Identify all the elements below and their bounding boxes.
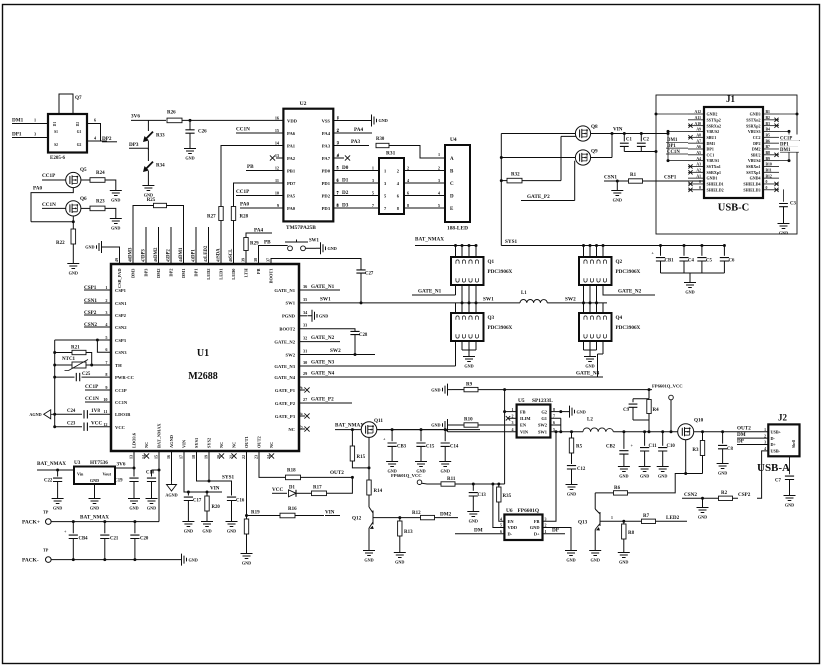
svg-text:2: 2 bbox=[764, 434, 766, 438]
svg-text:GND: GND bbox=[242, 561, 251, 566]
ground below C18 bbox=[146, 494, 158, 504]
svg-text:PWR-CC: PWR-CC bbox=[115, 375, 134, 380]
svg-text:USB-C: USB-C bbox=[718, 203, 750, 214]
svg-text:AGND: AGND bbox=[165, 493, 177, 498]
svg-text:R3: R3 bbox=[692, 448, 699, 453]
svg-text:Vout: Vout bbox=[103, 472, 112, 477]
svg-text:2: 2 bbox=[337, 128, 339, 133]
mosfet pack Q3 PDC3906X bbox=[451, 313, 484, 341]
svg-text:PB1: PB1 bbox=[287, 168, 296, 173]
ground below C22 bbox=[52, 494, 64, 504]
svg-text:GATE_N2: GATE_N2 bbox=[274, 339, 295, 344]
svg-text:BAT_NMAX: BAT_NMAX bbox=[37, 461, 66, 467]
svg-text:D1: D1 bbox=[289, 485, 295, 490]
svg-text:CSN2: CSN2 bbox=[115, 325, 127, 330]
svg-text:C1: C1 bbox=[626, 137, 632, 142]
svg-text:R28: R28 bbox=[240, 215, 249, 220]
svg-text:PD3: PD3 bbox=[322, 206, 331, 211]
svg-text:GND: GND bbox=[379, 118, 388, 123]
ground below C13 bbox=[467, 507, 479, 517]
svg-text:GND: GND bbox=[441, 469, 450, 474]
svg-text:Q3: Q3 bbox=[488, 315, 495, 321]
svg-text:SCL: SCL bbox=[229, 249, 234, 258]
wire Q2 gate net GATE_N2 bbox=[603, 285, 655, 295]
svg-text:GATE_P2: GATE_P2 bbox=[527, 194, 550, 200]
svg-text:GATE_N2: GATE_N2 bbox=[618, 288, 642, 294]
svg-text:VIN: VIN bbox=[325, 510, 335, 516]
svg-text:BOOT1: BOOT1 bbox=[269, 269, 274, 284]
svg-text:GND: GND bbox=[613, 198, 622, 203]
wire net DP1 at U1 top bbox=[195, 227, 197, 264]
svg-text:GND: GND bbox=[90, 506, 99, 511]
analog ground AGND below pin16 bbox=[167, 481, 177, 491]
svg-text:GND3: GND3 bbox=[750, 112, 761, 117]
wire U1 pin17 VIN rail bbox=[184, 451, 222, 492]
node NC U1 pin25 bbox=[299, 428, 305, 430]
svg-text:DP3: DP3 bbox=[142, 249, 147, 258]
svg-text:1: 1 bbox=[372, 165, 374, 170]
node NC U1 pin20 bbox=[219, 453, 224, 458]
svg-text:8: 8 bbox=[105, 372, 107, 377]
capacitor C26 bbox=[189, 120, 191, 129]
svg-text:D0: D0 bbox=[342, 165, 349, 171]
svg-text:U6: U6 bbox=[506, 508, 513, 514]
svg-text:BAT_NMAX: BAT_NMAX bbox=[157, 423, 162, 448]
resistor R24 bbox=[81, 179, 90, 181]
node DM1 at J1 right bbox=[780, 146, 801, 152]
svg-text:DP1: DP1 bbox=[707, 147, 714, 152]
svg-text:7: 7 bbox=[337, 190, 339, 195]
svg-text:GND2: GND2 bbox=[707, 112, 718, 117]
wire Q1 outputs to SW1 node bbox=[461, 285, 463, 303]
svg-text:D-: D- bbox=[508, 531, 513, 536]
svg-text:DP2: DP2 bbox=[169, 269, 174, 277]
svg-text:GATE_N4: GATE_N4 bbox=[274, 375, 295, 380]
svg-text:VDD: VDD bbox=[508, 525, 518, 530]
svg-text:SW1: SW1 bbox=[320, 297, 331, 303]
capacitor C2 bbox=[640, 132, 643, 135]
svg-text:DM1: DM1 bbox=[707, 141, 716, 146]
capacitor C19 bbox=[133, 467, 136, 470]
svg-text:C23: C23 bbox=[67, 422, 76, 427]
svg-text:R7: R7 bbox=[643, 514, 650, 519]
svg-text:GND: GND bbox=[85, 245, 94, 250]
ground below U3 bbox=[89, 494, 101, 504]
wire U1 pin5 CSP3 bbox=[55, 339, 111, 341]
svg-text:2: 2 bbox=[438, 165, 440, 170]
svg-text:SW1: SW1 bbox=[538, 429, 547, 434]
svg-text:R23: R23 bbox=[96, 200, 105, 205]
svg-text:BOOT2: BOOT2 bbox=[279, 327, 295, 332]
svg-text:PA6: PA6 bbox=[287, 131, 296, 136]
svg-text:DM2: DM2 bbox=[752, 147, 761, 152]
svg-text:CB3: CB3 bbox=[397, 445, 407, 450]
svg-text:3: 3 bbox=[764, 441, 766, 445]
svg-text:J1: J1 bbox=[726, 94, 736, 104]
svg-text:C26: C26 bbox=[198, 130, 207, 135]
svg-text:R13: R13 bbox=[404, 530, 413, 535]
svg-text:CSP2: CSP2 bbox=[738, 492, 751, 498]
svg-text:GATE_N4: GATE_N4 bbox=[576, 371, 600, 377]
svg-text:6: 6 bbox=[500, 529, 502, 534]
svg-text:GATE_N1: GATE_N1 bbox=[311, 284, 335, 290]
svg-text:CB1: CB1 bbox=[665, 259, 675, 264]
wire output rail after L2 bbox=[613, 431, 677, 433]
wire net DM2 at U1 top bbox=[158, 227, 160, 264]
svg-text:GND: GND bbox=[785, 503, 794, 508]
svg-text:R35: R35 bbox=[503, 494, 512, 499]
wire net DP2 at U1 top bbox=[170, 227, 172, 264]
svg-text:SYS1: SYS1 bbox=[505, 239, 518, 245]
ground below CB2 bbox=[618, 462, 630, 472]
svg-text:Shell: Shell bbox=[792, 440, 796, 448]
svg-text:TP: TP bbox=[43, 548, 49, 553]
svg-text:3: 3 bbox=[372, 178, 374, 183]
svg-text:CC1P: CC1P bbox=[85, 384, 99, 390]
svg-text:30: 30 bbox=[303, 360, 307, 365]
svg-text:0: 0 bbox=[699, 180, 701, 184]
svg-text:PA1: PA1 bbox=[287, 143, 296, 148]
svg-text:11: 11 bbox=[104, 409, 108, 414]
resistor R11 bbox=[422, 482, 441, 485]
svg-text:GND: GND bbox=[202, 529, 211, 534]
svg-text:CSB_PAD: CSB_PAD bbox=[117, 269, 122, 288]
svg-text:SHIELD2: SHIELD2 bbox=[707, 187, 724, 192]
svg-text:0: 0 bbox=[766, 186, 768, 190]
node junction 3V6/C26 bbox=[189, 119, 192, 122]
svg-text:DM1: DM1 bbox=[12, 118, 24, 124]
ground below Q13 bbox=[589, 546, 601, 556]
svg-text:C18: C18 bbox=[146, 471, 155, 476]
svg-text:15: 15 bbox=[153, 455, 158, 459]
svg-text:CC1P: CC1P bbox=[115, 388, 127, 393]
ic U2 TM57PA25B bbox=[283, 109, 333, 222]
svg-text:2: 2 bbox=[545, 523, 547, 528]
ground below bulk caps bbox=[684, 278, 696, 288]
svg-text:DP2: DP2 bbox=[167, 249, 172, 258]
svg-text:0: 0 bbox=[766, 180, 768, 184]
wire Q3 outputs to ground bbox=[461, 341, 463, 350]
svg-text:Q1: Q1 bbox=[488, 259, 495, 265]
capacitor C25 bbox=[53, 376, 56, 379]
svg-text:DM3: DM3 bbox=[129, 247, 134, 258]
svg-text:OUT2: OUT2 bbox=[257, 436, 262, 448]
svg-text:DP3: DP3 bbox=[129, 142, 139, 148]
svg-text:C4: C4 bbox=[688, 259, 694, 264]
resistor network R31 bbox=[379, 158, 404, 214]
svg-text:R18: R18 bbox=[287, 468, 296, 473]
svg-text:R20: R20 bbox=[212, 505, 221, 510]
capacitor C22 bbox=[56, 469, 59, 472]
svg-text:Q7: Q7 bbox=[75, 95, 82, 101]
svg-text:S2: S2 bbox=[54, 143, 58, 147]
svg-text:GATE_P2: GATE_P2 bbox=[275, 401, 296, 406]
svg-text:B6: B6 bbox=[766, 139, 771, 143]
svg-text:CC1N: CC1N bbox=[236, 127, 250, 133]
ground at U2 VSS bbox=[367, 115, 377, 127]
wire net DP3 at U1 top bbox=[145, 227, 147, 264]
svg-text:SHIELD1: SHIELD1 bbox=[707, 182, 724, 187]
wire U6 GND pin to ground bbox=[543, 528, 572, 547]
svg-text:OUT2: OUT2 bbox=[737, 426, 751, 432]
svg-text:DP3: DP3 bbox=[144, 268, 149, 277]
svg-text:C3: C3 bbox=[790, 202, 796, 207]
node GATE_N1 at U1 pin36 bbox=[299, 289, 340, 291]
wire PACK- rail to ground bbox=[51, 559, 177, 561]
ground below R20 bbox=[201, 517, 213, 527]
svg-text:CC2: CC2 bbox=[753, 135, 761, 140]
svg-text:A8: A8 bbox=[696, 134, 701, 138]
svg-text:1: 1 bbox=[337, 115, 339, 120]
node junction base of Q12 bbox=[398, 516, 401, 519]
svg-text:PGND: PGND bbox=[282, 314, 296, 319]
svg-text:9: 9 bbox=[277, 203, 279, 208]
node GATE_N2 at U1 pin32 bbox=[299, 341, 340, 343]
ground below C17 bbox=[182, 517, 194, 527]
wire PB to pushbutton bbox=[259, 246, 288, 265]
node SW2 at U1 pin31 bbox=[299, 354, 375, 356]
ground below C3 bbox=[778, 219, 790, 229]
svg-text:SW1: SW1 bbox=[286, 301, 296, 306]
ground left of pin49 bbox=[97, 241, 107, 253]
pushbutton switch SW1 bbox=[288, 246, 293, 251]
capacitor C15 bbox=[420, 428, 423, 431]
svg-text:17: 17 bbox=[178, 455, 183, 459]
svg-text:VDD: VDD bbox=[287, 118, 298, 123]
svg-text:VCC: VCC bbox=[91, 421, 102, 427]
capacitor C14 bbox=[444, 428, 447, 431]
svg-text:DP: DP bbox=[737, 438, 745, 444]
wire J1 GND3 row to frame bbox=[779, 113, 797, 115]
capacitor C28 bbox=[350, 331, 359, 334]
svg-text:PD2: PD2 bbox=[322, 193, 331, 198]
svg-text:GND: GND bbox=[364, 558, 373, 563]
svg-text:GND: GND bbox=[395, 560, 404, 565]
svg-text:SW2: SW2 bbox=[565, 297, 576, 303]
ground below C26 bbox=[184, 144, 196, 154]
ground below C15 bbox=[415, 457, 427, 467]
ground below C11 bbox=[639, 462, 651, 472]
svg-text:D-: D- bbox=[771, 436, 776, 441]
wire VDD feed to U6 pin5 bbox=[493, 484, 505, 528]
wire U2 pin8 net D3 to R31 bbox=[333, 207, 379, 209]
svg-text:BAT_NMAX: BAT_NMAX bbox=[415, 237, 444, 243]
ground below C10 bbox=[657, 462, 669, 472]
wire U2 pin14 to SDA column bbox=[221, 146, 283, 265]
capacitor C12 bbox=[567, 466, 576, 469]
ground below C7 bbox=[784, 491, 796, 501]
node NC U1 pin21 bbox=[231, 453, 236, 458]
resistor R22 bbox=[72, 222, 74, 229]
svg-text:1: 1 bbox=[34, 118, 36, 123]
svg-text:GND: GND bbox=[619, 560, 628, 565]
svg-text:Q10: Q10 bbox=[694, 418, 704, 424]
svg-text:LED0: LED0 bbox=[231, 268, 236, 280]
svg-text:D+: D+ bbox=[771, 442, 777, 447]
svg-text:U3: U3 bbox=[74, 460, 81, 466]
svg-text:GND: GND bbox=[227, 529, 236, 534]
svg-text:16: 16 bbox=[275, 115, 279, 120]
svg-text:DM: DM bbox=[474, 527, 483, 533]
wire FB bus down to R11/R35 junction bbox=[493, 390, 505, 484]
svg-text:C27: C27 bbox=[365, 272, 374, 277]
svg-text:5: 5 bbox=[372, 190, 374, 195]
svg-text:R25: R25 bbox=[147, 198, 156, 203]
wire U2 pin6 net D1 to R31 bbox=[333, 182, 379, 184]
ground below C16 bbox=[226, 517, 238, 527]
resistor R33 (diagonal) bbox=[144, 132, 153, 141]
svg-text:GND: GND bbox=[464, 364, 473, 369]
wire net LED2 at U1 top bbox=[208, 227, 210, 264]
svg-text:SW1: SW1 bbox=[483, 297, 494, 303]
svg-text:3: 3 bbox=[438, 178, 440, 183]
svg-text:1: 1 bbox=[764, 428, 766, 432]
svg-text:R33: R33 bbox=[156, 134, 165, 139]
svg-text:USB-: USB- bbox=[771, 449, 781, 454]
svg-text:VCC: VCC bbox=[272, 487, 283, 493]
ic U5 SP1233L bbox=[517, 405, 551, 438]
svg-text:CSN1: CSN1 bbox=[604, 174, 617, 180]
svg-text:CC1N: CC1N bbox=[115, 400, 128, 405]
svg-text:SW2: SW2 bbox=[330, 348, 341, 354]
no-connect marks J1 right bbox=[774, 118, 778, 122]
svg-text:C7: C7 bbox=[775, 479, 781, 484]
svg-text:31: 31 bbox=[303, 349, 307, 354]
svg-text:SBU2: SBU2 bbox=[751, 152, 761, 157]
svg-text:2: 2 bbox=[407, 165, 409, 170]
wire U5 pin1 FB stub bbox=[505, 411, 517, 413]
svg-text:1V8: 1V8 bbox=[91, 408, 100, 414]
svg-text:VBUS1: VBUS1 bbox=[707, 158, 720, 163]
svg-text:GND1: GND1 bbox=[707, 176, 718, 181]
svg-text:D1: D1 bbox=[342, 178, 349, 184]
node DP3 bbox=[147, 141, 149, 150]
svg-text:GND: GND bbox=[577, 409, 586, 414]
svg-text:R26: R26 bbox=[167, 111, 176, 116]
svg-text:7: 7 bbox=[553, 414, 555, 419]
node PA3 / resistor R30 to U4 pin1 bbox=[333, 145, 369, 147]
svg-text:TP: TP bbox=[43, 510, 49, 515]
resistor R3 bbox=[701, 430, 704, 433]
svg-text:GND: GND bbox=[189, 557, 198, 562]
svg-text:A12: A12 bbox=[694, 110, 701, 114]
svg-text:6: 6 bbox=[337, 178, 339, 183]
svg-text:SYS2: SYS2 bbox=[207, 438, 212, 448]
resistor R34 (diagonal) bbox=[147, 148, 149, 161]
wire Q7 pins 6-4 tie bbox=[87, 124, 107, 142]
svg-text:37: 37 bbox=[265, 258, 270, 262]
capacitor C20 bbox=[133, 520, 136, 523]
svg-text:3V6: 3V6 bbox=[131, 114, 140, 120]
ground below CSN2 bbox=[697, 503, 709, 513]
wire U5 SW pins tie to L2 bbox=[550, 418, 583, 431]
svg-text:C16: C16 bbox=[236, 499, 245, 504]
svg-text:GND: GND bbox=[111, 226, 120, 231]
svg-text:A4: A4 bbox=[696, 157, 701, 161]
node NC U1 pin24 bbox=[269, 453, 274, 458]
svg-text:PACK+: PACK+ bbox=[22, 520, 40, 526]
svg-text:VIN: VIN bbox=[210, 486, 220, 492]
ground right of U5 pin8 bbox=[565, 406, 575, 418]
wire U3 GND pin to ground bbox=[94, 484, 96, 494]
svg-text:GND: GND bbox=[184, 529, 193, 534]
wire GATE_N4 U1 pin29 to Q4 gate bbox=[299, 376, 603, 378]
svg-text:C5: C5 bbox=[706, 259, 712, 264]
ground at pin34 bbox=[308, 310, 318, 322]
svg-text:6: 6 bbox=[94, 118, 96, 123]
svg-text:GND: GND bbox=[567, 492, 576, 497]
svg-text:PA0: PA0 bbox=[287, 206, 296, 211]
node GATE_P2 at U1 pin27 bbox=[299, 402, 352, 404]
svg-text:FP6601Q_VCC: FP6601Q_VCC bbox=[652, 383, 683, 388]
svg-text:CSP3: CSP3 bbox=[115, 338, 127, 343]
capacitor C4 bbox=[683, 244, 686, 247]
resistor R16 to VIN bbox=[247, 515, 281, 517]
wire Q2 outputs to SW2 node bbox=[583, 285, 585, 303]
wire R31 pin8 to U4 bbox=[404, 207, 445, 209]
capacitor C17 bbox=[187, 491, 190, 494]
resistor R13 bbox=[399, 518, 401, 521]
resistor R8 bbox=[623, 521, 625, 524]
svg-text:VBUS4: VBUS4 bbox=[748, 158, 761, 163]
svg-text:3: 3 bbox=[337, 140, 339, 145]
svg-text:AGND: AGND bbox=[29, 412, 41, 417]
node NC U1 pin14 bbox=[144, 453, 149, 458]
svg-text:8: 8 bbox=[553, 407, 555, 412]
svg-text:SDA: SDA bbox=[217, 248, 222, 258]
svg-text:SHIELD3: SHIELD3 bbox=[743, 187, 760, 192]
svg-text:PDC3906X: PDC3906X bbox=[616, 325, 641, 331]
svg-text:SHIELD4: SHIELD4 bbox=[743, 182, 760, 187]
svg-text:DM2: DM2 bbox=[156, 269, 161, 279]
svg-text:PA3: PA3 bbox=[351, 139, 361, 145]
ground right of SW1 bbox=[316, 242, 326, 254]
wire SW1 to ground bbox=[305, 247, 316, 249]
capacitor CB2 electrolytic bbox=[622, 430, 625, 433]
svg-text:R15: R15 bbox=[357, 455, 366, 460]
svg-text:C21: C21 bbox=[110, 537, 119, 542]
svg-text:R30: R30 bbox=[376, 137, 385, 142]
svg-text:FP6601Q_VCC: FP6601Q_VCC bbox=[391, 473, 422, 478]
svg-text:GND: GND bbox=[685, 290, 694, 295]
capacitor C1 bbox=[623, 132, 626, 135]
svg-text:VCC: VCC bbox=[115, 425, 125, 430]
svg-text:DM2: DM2 bbox=[440, 511, 452, 517]
svg-text:GND: GND bbox=[431, 387, 440, 392]
svg-text:A10: A10 bbox=[694, 122, 701, 126]
wire U1 pin13 LDO3.6 to U3 output net 3V6 bbox=[115, 451, 134, 468]
wire U1 pin6 CSN3 bbox=[97, 340, 111, 352]
svg-text:TH: TH bbox=[115, 363, 122, 368]
wire C1/C2 ground tie to J1 frame bbox=[624, 151, 656, 153]
svg-text:3: 3 bbox=[545, 517, 547, 522]
svg-text:SW1: SW1 bbox=[309, 239, 319, 244]
mosfet pack Q4 PDC3906X bbox=[579, 313, 612, 341]
capacitor C10 bbox=[661, 430, 664, 433]
node DP1 at J1 right bbox=[780, 140, 800, 146]
wire J1 GND2 row to frame bbox=[656, 113, 688, 115]
svg-text:DM1: DM1 bbox=[181, 269, 186, 279]
svg-text:GATE_N4: GATE_N4 bbox=[311, 371, 335, 377]
svg-text:C24: C24 bbox=[67, 409, 76, 414]
svg-text:GND: GND bbox=[90, 478, 99, 483]
resistor R15 bbox=[351, 430, 353, 446]
node junction base Q13 bbox=[622, 520, 625, 523]
svg-text:GND: GND bbox=[718, 471, 727, 476]
svg-text:B3: B3 bbox=[766, 122, 771, 126]
svg-text:GND: GND bbox=[431, 423, 440, 428]
svg-text:GND: GND bbox=[698, 515, 707, 520]
